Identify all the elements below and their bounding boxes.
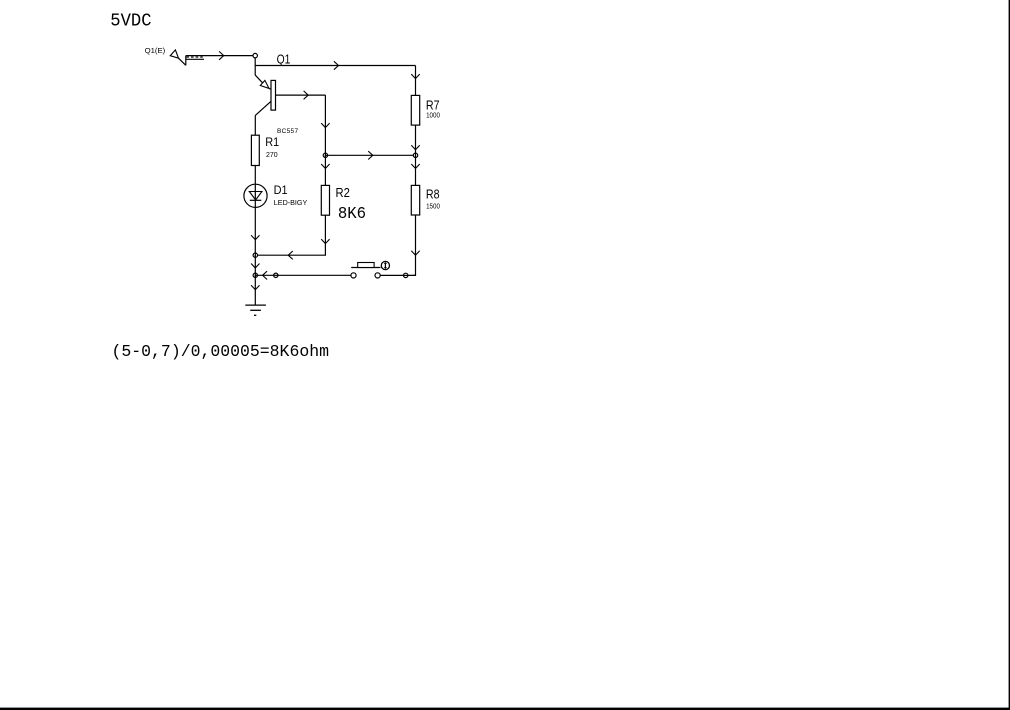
resistor R8 bbox=[411, 185, 419, 215]
svg-text:1000: 1000 bbox=[426, 111, 440, 120]
arrow down above node B bbox=[411, 145, 419, 150]
resistor R2 bbox=[321, 185, 329, 215]
arrow down above ground bbox=[251, 285, 259, 290]
value 1500 bbox=[426, 201, 440, 210]
wire node C to node B bbox=[325, 154, 415, 156]
arrow down below R2 bbox=[321, 239, 329, 244]
wire Q1 base to R2 branch bbox=[276, 94, 326, 96]
wire switch to R8 leg bbox=[380, 274, 415, 276]
arrow down below node B bbox=[411, 164, 419, 169]
transistor Q1 collector lead bbox=[255, 101, 271, 115]
arrow left on bottom wire bbox=[263, 271, 268, 279]
wire base branch down to node C bbox=[324, 95, 326, 155]
arrow down above node D bbox=[251, 235, 259, 240]
diode D1 cathode bar bbox=[250, 199, 261, 201]
transistor Q1 base bar bbox=[271, 80, 276, 110]
arrow down above R7 bbox=[411, 74, 419, 79]
wire R1 to D1 bbox=[254, 166, 256, 256]
wire collector to R1 bbox=[254, 115, 256, 135]
label 5VDC supply text bbox=[110, 12, 151, 32]
svg-text:R2: R2 bbox=[336, 186, 351, 201]
svg-text:R1: R1 bbox=[265, 136, 279, 150]
ground bbox=[245, 305, 266, 315]
value 8K6 bbox=[338, 204, 366, 223]
switch S1 button cap bbox=[358, 263, 374, 268]
label Q1 bbox=[277, 53, 291, 66]
resistor R7 bbox=[411, 95, 419, 125]
transistor Q1 emitter nub bbox=[269, 87, 271, 90]
node B junction bbox=[413, 153, 417, 158]
wire R2 bottom to node D bbox=[255, 215, 325, 255]
wire R7 to node B bbox=[415, 125, 417, 155]
node A top junction bbox=[253, 53, 257, 57]
arrow right on Q1 wire bbox=[334, 61, 339, 69]
window bottom border bbox=[0, 708, 1010, 710]
formula text bbox=[112, 342, 330, 361]
node D junction bbox=[253, 253, 257, 258]
junction dot on bottom wire left bbox=[273, 273, 278, 277]
wire node C to R2 bbox=[324, 155, 326, 185]
value LED-BIGY bbox=[274, 200, 308, 207]
svg-text:Q1: Q1 bbox=[277, 53, 291, 66]
arrow right on input wire bbox=[219, 51, 224, 59]
wire R8 bottom to corner bbox=[413, 215, 416, 275]
connector probe triangle bbox=[170, 50, 178, 58]
arrow down between node D and node E bbox=[251, 264, 259, 269]
svg-text:8K6: 8K6 bbox=[338, 204, 366, 223]
svg-text:LED-BIGY: LED-BIGY bbox=[274, 200, 308, 207]
connector lead diagonal bbox=[179, 58, 186, 65]
arrow down above node C bbox=[321, 123, 329, 128]
connector vertical bar bbox=[185, 56, 187, 66]
label R1 bbox=[265, 136, 279, 150]
arrow down below R8 bbox=[411, 251, 419, 256]
transistor Q1 emitter arrow bbox=[260, 80, 269, 88]
arrow left on R2 return wire bbox=[288, 251, 293, 259]
junction dot on bottom wire right bbox=[403, 273, 408, 277]
connector dashed line bbox=[186, 56, 204, 58]
svg-text:Q1(E): Q1(E) bbox=[145, 46, 166, 55]
transistor Q1 emitter lead bbox=[255, 75, 262, 83]
label R7 bbox=[426, 99, 440, 113]
svg-text:D1: D1 bbox=[274, 184, 288, 198]
svg-text:(5-0,7)/0,00005=8K6ohm: (5-0,7)/0,00005=8K6ohm bbox=[112, 342, 330, 361]
resistor R1 bbox=[251, 135, 259, 165]
node E junction bbox=[253, 273, 257, 278]
svg-text:R8: R8 bbox=[426, 188, 440, 202]
wire node D to node E bbox=[254, 255, 256, 275]
wire node E to ground bbox=[254, 275, 256, 305]
label D1 bbox=[274, 184, 288, 198]
node C junction bbox=[323, 153, 327, 158]
svg-text:BC557: BC557 bbox=[277, 128, 298, 135]
switch S1 bridge bbox=[351, 267, 380, 269]
arrow down below node C bbox=[321, 164, 329, 169]
wire down to R7 bbox=[415, 66, 417, 96]
arrow right on base wire bbox=[304, 91, 309, 99]
wire node E to switch bbox=[255, 274, 351, 276]
label R2 bbox=[336, 186, 351, 201]
label Q1(E) net name bbox=[145, 46, 166, 55]
wire Q1 top horizontal bbox=[255, 65, 415, 67]
switch S1 left terminal bbox=[351, 273, 356, 278]
window right border bbox=[1009, 0, 1010, 710]
switch S1 right terminal bbox=[375, 273, 380, 278]
value 1000 bbox=[426, 111, 440, 120]
diode D1 LED circle bbox=[244, 184, 267, 207]
arrow right on C-B wire bbox=[368, 151, 373, 159]
wire input to node A bbox=[186, 55, 253, 57]
svg-text:5VDC: 5VDC bbox=[110, 12, 151, 32]
label BC557 bbox=[277, 128, 298, 135]
switch S1 key indicator bbox=[381, 261, 389, 269]
wire node B to R8 bbox=[415, 155, 417, 185]
value 270 bbox=[266, 152, 278, 159]
wire node A down stub bbox=[254, 58, 256, 75]
label R8 bbox=[426, 188, 440, 202]
connector lower line bbox=[186, 58, 204, 60]
svg-text:1500: 1500 bbox=[426, 201, 440, 210]
svg-text:270: 270 bbox=[266, 152, 278, 159]
diode D1 triangle bbox=[249, 192, 262, 200]
